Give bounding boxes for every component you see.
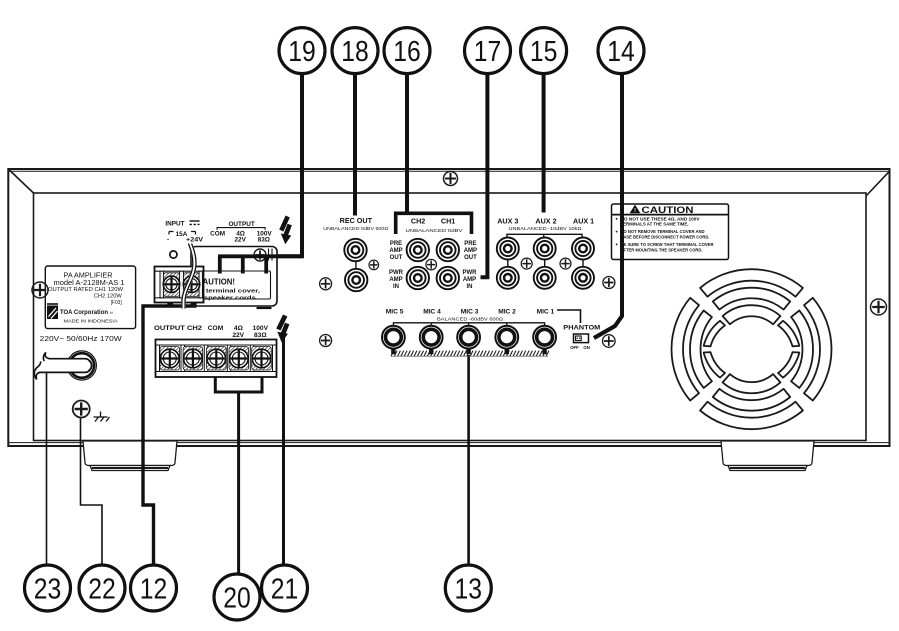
svg-text:22V: 22V [235,237,247,244]
caution triangle icon [630,205,641,214]
RCA jack AUX upper x544.7 [534,238,556,260]
callout circle 22 [79,565,125,611]
OUTPUT CH2 terminal screws [161,349,271,368]
svg-text:AMP: AMP [389,277,402,283]
svg-text:DO NOT USE THESE 4Ω, AND 100V: DO NOT USE THESE 4Ω, AND 100V [621,216,700,221]
warning lightning bolt top [281,217,290,244]
screw AUX21 small [560,258,571,269]
svg-text:IN: IN [393,284,399,290]
PWR AMP IN right [463,270,478,290]
svg-text:BE SURE TO SCREW THAT TERMINAL: BE SURE TO SCREW THAT TERMINAL COVER [621,242,715,247]
screw left panel [32,282,48,298]
svg-text:PWR: PWR [389,270,404,276]
MIC bracket [393,323,544,326]
leader line 13 from MIC 3 jack [467,355,470,566]
svg-text:CH2 120W: CH2 120W [94,294,122,300]
svg-text:DO NOT REMOVE TERMINAL COVER A: DO NOT REMOVE TERMINAL COVER AND [621,229,705,234]
svg-text:OUTPUT: OUTPUT [228,221,254,228]
svg-text:[F03]: [F03] [111,300,123,306]
svg-text:COM: COM [210,230,225,237]
leader line 19 with terminal pointer comb [218,73,302,274]
output bracket [217,228,265,230]
DC input terminal screws [163,276,199,292]
svg-text:OUTPUT RATED CH1 120W: OUTPUT RATED CH1 120W [48,287,123,293]
svg-text:220V~ 50/60Hz 170W: 220V~ 50/60Hz 170W [40,334,122,343]
caution text on cover [197,278,261,302]
cord frayed end [43,352,49,361]
callout circle 23 [25,565,71,611]
RCA jack CH2 pre amp out [407,239,429,261]
svg-text:22: 22 [88,573,116,605]
screw right panel [871,299,887,315]
callout circle 16 [384,28,430,74]
svg-text:,ltd: ,ltd [109,311,113,315]
fan vent grille [672,269,832,429]
RCA jack CH2 pwr amp in [407,267,429,289]
svg-text:MIC 2: MIC 2 [498,309,516,316]
svg-text:UNBALANCED 0dBV: UNBALANCED 0dBV [406,228,464,233]
phone jack MIC x431.2 [420,326,443,354]
svg-text:UNBALANCED -10dBV 10kΩ: UNBALANCED -10dBV 10kΩ [509,226,583,231]
callout circle 14 [598,28,644,74]
svg-text:REC OUT: REC OUT [340,216,373,225]
PWR AMP IN left [389,270,404,290]
svg-text:15: 15 [530,36,558,68]
svg-text:AUX 2: AUX 2 [535,217,556,226]
callout circle 17 [465,28,511,74]
svg-text:12: 12 [140,573,168,605]
leader line 23 from power cord [46,373,48,566]
RCA jack CH1 pwr amp in [437,267,459,289]
svg-text:model A-2128M-AS 1: model A-2128M-AS 1 [54,278,125,287]
TOA logo [47,303,58,319]
svg-text:MIC 1: MIC 1 [537,309,555,316]
svg-text:CH1: CH1 [441,217,455,226]
svg-text:UNBALANCED 0dBV 600Ω: UNBALANCED 0dBV 600Ω [323,226,389,231]
svg-text:PHANTOM: PHANTOM [563,325,600,332]
leader line 14 to phantom switch [594,73,622,339]
svg-text:MIC 4: MIC 4 [423,309,441,316]
svg-text:PRE: PRE [464,241,476,247]
svg-text:20: 20 [223,582,251,614]
svg-text:18: 18 [341,36,369,68]
screw right of AUX1 [603,277,615,289]
svg-text:CASE BEFORE DISCONNECT POWER C: CASE BEFORE DISCONNECT POWER CORD. [621,235,710,240]
RCA jack AUX lower x544.7 [534,267,556,289]
rating label PA AMPLIFIER [45,266,135,329]
DC input terminal block [155,267,204,307]
AUX column links [508,260,583,268]
svg-text:PWR: PWR [463,270,478,276]
callout circle 20 [214,574,260,620]
svg-text:13: 13 [455,573,483,605]
phone jack MIC x468.6 [457,326,480,354]
svg-text:-: - [167,237,169,244]
callout circle 18 [332,28,378,74]
screw CH2/CH1 small [426,259,437,270]
screw top flange [444,172,458,186]
svg-text:MIC 3: MIC 3 [461,309,479,316]
leader line 17 to PWR AMP IN [481,73,488,278]
svg-text:22V: 22V [232,332,244,339]
leader line 12 from DC input terminal [143,306,197,566]
svg-text:ON: ON [583,345,589,350]
leader line 15 [542,73,546,213]
svg-text:OFF: OFF [570,345,579,350]
svg-text:BALANCED -60dBV 600Ω: BALANCED -60dBV 600Ω [437,316,504,321]
RCA jack CH1 pre amp out [437,239,459,261]
svg-text:TOA Corporation: TOA Corporation [60,309,108,316]
COM 4ohm 100V labels [210,230,272,243]
phone jack MIC x544.6 [533,326,556,354]
svg-text:AMP: AMP [389,248,402,254]
svg-text:COM: COM [208,325,224,332]
svg-text:CH2: CH2 [411,217,425,226]
screw right of phantom [603,335,616,348]
svg-text:14: 14 [607,36,635,68]
screw left of MIC 5 [320,335,332,347]
svg-text:!: ! [634,208,636,214]
screw ground [73,401,90,418]
svg-text:21: 21 [271,573,299,605]
leader line 21 from warning symbol [282,336,285,566]
phone jack MIC x393.4 [382,326,405,354]
screw AUX32 small [521,258,532,269]
right foot [721,441,814,471]
AUX bracket [507,234,582,237]
screw REC/CH2 small [369,260,379,270]
RCA jack AUX lower x507.8 [497,267,519,289]
svg-text:AUX 1: AUX 1 [573,217,594,226]
MIC labels [386,309,555,316]
svg-text:AFTER MOUNTING THE SPEAKER COR: AFTER MOUNTING THE SPEAKER CORD. [621,247,703,252]
chassis ground symbol [94,412,110,422]
svg-text:19: 19 [288,36,316,68]
power cord grommet [67,351,96,380]
svg-text:+24V: +24V [186,237,204,244]
callout circle 21 [262,565,308,611]
svg-text:CAUTION: CAUTION [642,205,694,215]
svg-text:AMP: AMP [463,277,476,283]
callout circle 12 [131,565,177,611]
svg-text:OUT: OUT [464,255,477,261]
leader 19 comb over cover [218,256,302,274]
svg-text:AUX 3: AUX 3 [497,217,518,226]
small hole [170,251,177,258]
leader line 20 with output terminal bracket [215,378,262,575]
svg-text:AMP: AMP [464,248,477,254]
svg-text:17: 17 [474,36,502,68]
svg-text:OUT: OUT [390,255,403,261]
svg-text:OUTPUT CH2: OUTPUT CH2 [154,325,202,332]
svg-text:g speaker cords.: g speaker cords. [197,295,259,301]
callout circle 13 [445,565,491,611]
RCA jack AUX lower x583.0 [572,267,594,289]
phantom switch [574,334,589,343]
cable crossing cover [184,244,195,309]
warning lightning bolt bottom [278,316,287,342]
svg-text:PRE: PRE [390,241,402,247]
solder lug strip [391,351,549,357]
REC OUT link [355,260,357,269]
phone jack MIC x506.8 [495,326,518,354]
OUTPUT CH2 terminal cell hatching [160,347,180,371]
speaker terminal cover [191,247,277,309]
MIC1 to phantom link [557,310,581,323]
svg-text:TERMINALS AT THE SAME TIME,: TERMINALS AT THE SAME TIME, [621,222,689,227]
svg-text:83Ω: 83Ω [254,332,267,339]
leader line 16 with CH2/CH1 bracket [396,73,472,235]
callout circle 15 [521,28,567,74]
15A +24V labels [167,231,204,244]
svg-text:16: 16 [393,36,421,68]
chassis outer case [8,169,889,446]
caution label [612,204,729,260]
RCA jack REC OUT upper [344,239,366,261]
svg-text:MIC 5: MIC 5 [386,309,404,316]
svg-text:n terminal cover,: n terminal cover, [199,288,261,294]
svg-text:IN: IN [467,284,473,290]
leader line 22 from ground screw [81,417,103,566]
OUTPUT CH2 terminal block [156,340,277,378]
OUTPUT CH2 labels [154,325,269,339]
screw cover screw [254,249,266,261]
power cord [39,359,92,373]
leader line 14 over label [594,203,622,338]
DC symbol [190,221,200,224]
callout circle 19 [279,28,325,74]
RCA jack AUX upper x583.0 [572,238,594,260]
PRE AMP OUT left [389,241,402,261]
RCA jack REC OUT lower [345,269,367,291]
screw left of REC OUT [320,278,332,290]
chassis recessed rear panel [8,169,889,441]
svg-text:MADE IN INDONESIA: MADE IN INDONESIA [64,319,119,324]
svg-text:23: 23 [34,573,62,605]
svg-text:INPUT: INPUT [165,220,184,227]
svg-text:83Ω: 83Ω [258,237,270,244]
PRE AMP OUT right [464,241,477,261]
left foot [83,441,177,471]
RCA jack AUX upper x507.8 [497,238,519,260]
leader line 18 [353,73,357,216]
